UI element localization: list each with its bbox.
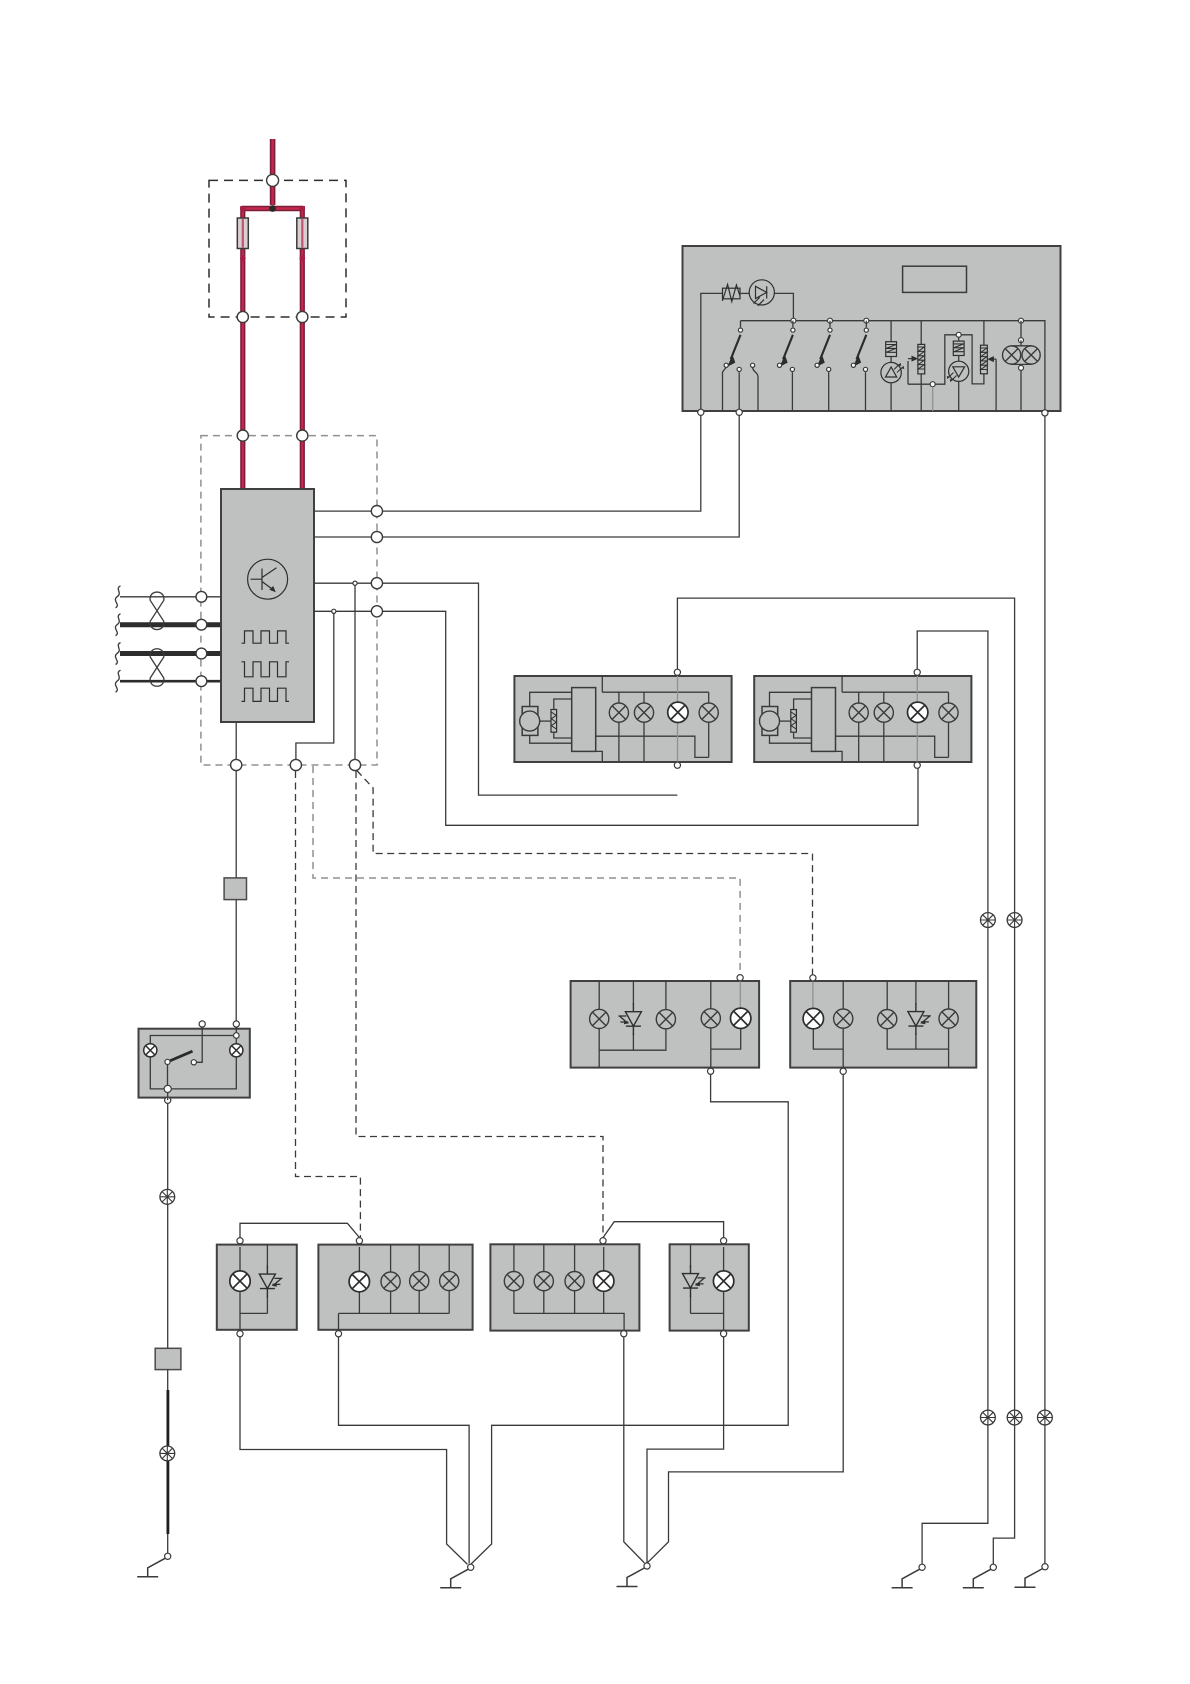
wire: lower ground wire [167, 1370, 169, 1554]
connector: control boundary top right (red in) [297, 430, 308, 441]
wire: LDR to photodiode [740, 292, 749, 294]
right headlamp: series resistor [791, 710, 797, 733]
connector: boundary bottom 3 [349, 759, 360, 770]
right rear: lamp3 riser [886, 981, 888, 1009]
wire: U1 output 2 to connector [314, 536, 377, 538]
break squiggle input 3 [115, 643, 120, 665]
arrow: P2 wiper head [987, 356, 994, 362]
inline connector box on feed [224, 878, 246, 900]
right headlamp low beam lamp (on) [908, 702, 928, 722]
pin: S1 bottom pin 1 [698, 409, 704, 415]
wire: P1 wiper [908, 359, 915, 385]
left headlamp module [514, 676, 731, 762]
switch 1 lever [727, 335, 740, 367]
right rear LED indicator [908, 1003, 931, 1035]
splice on lower ground wire [160, 1446, 175, 1461]
left headlamp: resistor top wire [554, 699, 572, 710]
parking light switch module [139, 1029, 250, 1098]
right rear lamp 4 [939, 1009, 958, 1028]
right rear lamp module [790, 981, 976, 1068]
wire: S1 pin3 long ground rail [1044, 416, 1046, 1564]
connector: output 1 [371, 506, 382, 517]
wire: switch bottom down [167, 1093, 169, 1349]
wire: lamp pair feed [1020, 321, 1022, 341]
switch 1 contact b [737, 367, 741, 371]
M1 white lamp [230, 1271, 250, 1291]
right headlamp: motor mount rect [762, 707, 778, 736]
switch left lamp [144, 1044, 157, 1057]
switch 4 top contact [864, 328, 868, 332]
wire: M3-M4 top link [603, 1222, 724, 1238]
junction on bus at switch 3 [828, 318, 833, 323]
transistor symbol in U1 [248, 559, 288, 599]
panel lamp E2 [1022, 346, 1040, 364]
M2: bottom bus [339, 1291, 450, 1330]
junction above R2 [956, 332, 961, 337]
junction: below fuse F1 [240, 256, 246, 262]
potentiometer P1 [918, 344, 925, 374]
switch: pivot down wire [167, 1065, 169, 1089]
left headlamp: bus feed stub [601, 676, 603, 692]
connector: input 3 [196, 648, 207, 659]
module M1 (position lamp left) [217, 1245, 297, 1330]
wire: fuse F2 feed (red) right branch [300, 206, 305, 489]
twisted pair symbol inputs 1-2 [150, 592, 164, 630]
pin: left rear top [737, 975, 743, 981]
break squiggle input 2 [115, 614, 120, 636]
M1 LED [259, 1266, 282, 1298]
ground G3 [617, 1563, 651, 1587]
M3 lamp 1 [504, 1272, 523, 1291]
splice on right headlamp rail [981, 913, 996, 928]
switch: right lamp wires [168, 1057, 237, 1089]
ground G1 [137, 1553, 171, 1577]
M2: lamp4 riser [448, 1245, 450, 1272]
left headlamp: lamp4 drop [708, 692, 710, 703]
pin: S1 bottom pin 2 [736, 409, 742, 415]
switch 1 contact c [751, 363, 755, 367]
resistor R2 [953, 341, 964, 355]
potentiometer P2 [981, 345, 988, 374]
left headlamp: resistor bottom wire [554, 732, 572, 738]
M2: lamp3 riser [418, 1245, 420, 1272]
right headlamp: lamp1 down wire [858, 722, 860, 762]
switch 2 lever [780, 335, 793, 367]
right rear lamp 2 [834, 1009, 853, 1028]
pin: right rear bottom [840, 1068, 846, 1074]
pin: left headlamp top [674, 669, 680, 675]
switch 1 contact a [724, 363, 728, 367]
fuse box (dashed boundary) [209, 180, 346, 317]
connector: output 3 [371, 578, 382, 589]
right headlamp: bus feed stub [841, 676, 843, 692]
right headlamp: motor M [760, 711, 780, 731]
splice on switch ground wire [160, 1189, 175, 1204]
M3: white lamp feed [603, 1247, 605, 1272]
left rear: bottom bus 2 [711, 1028, 741, 1068]
dashed option wire D4 to module M3 [356, 771, 603, 1237]
indicator LED1 [881, 362, 904, 382]
left rear: feed to white lamp [739, 981, 741, 1009]
ground G5 [963, 1564, 997, 1588]
left headlamp lamp 4 [699, 703, 718, 722]
wire: U1 bottom pin down [235, 722, 237, 878]
right headlamp lamp 1 [849, 703, 868, 722]
M3: bottom bus [514, 1291, 624, 1330]
right headlamp: bottom bus [836, 722, 949, 757]
wire: heavy section of ground wire [166, 1390, 169, 1534]
junction below lamp pair [1019, 365, 1024, 370]
wire: contact 1c down [753, 368, 758, 411]
left rear white lamp (on) [731, 1008, 751, 1028]
wire: M1 top link [240, 1223, 359, 1237]
left headlamp: lamp1 drop [618, 692, 620, 703]
right headlamp: leveling unit rect [812, 688, 836, 752]
control module dashed boundary [201, 436, 377, 765]
break squiggle input 4 [115, 670, 120, 692]
wire: R2 to LED2 [958, 356, 960, 362]
arrow: P1 wiper head [912, 356, 919, 362]
switch: fixed contact [191, 1060, 196, 1065]
right rear: bottom bus 2 [887, 1029, 948, 1068]
left rear: lamp3 riser [710, 981, 712, 1009]
dashed option wire D3 to right rear lamp [357, 771, 813, 975]
wire: P2 wiper [991, 359, 996, 411]
wire: left headlamp top pin to right ground rail [677, 598, 1014, 1564]
right rear: lamp4 riser [948, 981, 950, 1009]
wire: photodiode to switch bus [774, 293, 793, 320]
right headlamp: motor bottom wire [770, 735, 812, 743]
pin: S1 bottom pin 3 (right) [1042, 410, 1048, 416]
wire: switch4 riser [865, 321, 867, 328]
module M4 (position lamp right) [670, 1244, 749, 1330]
wire: contact 2b down [791, 372, 793, 411]
switch 1 top contact [738, 328, 742, 332]
right headlamp: lamp top bus [842, 691, 948, 693]
wire: red bus bar in fuse box [243, 206, 302, 212]
left rear: lamp2 riser [665, 981, 667, 1009]
wire: U1 output 3 (left headlamp feed) [314, 583, 677, 795]
pin: right rear top [810, 975, 816, 981]
ground G4 [892, 1564, 926, 1588]
wire: potentiometer P2 feed [983, 321, 985, 346]
M1: through wire [239, 1247, 241, 1330]
wire: left rear ground run [471, 1074, 789, 1564]
connector: boundary bottom 2 [290, 759, 301, 770]
wire: input 2 (thick) to control module [120, 622, 221, 627]
wire: R2 feed [958, 337, 960, 341]
left headlamp: bottom step outline [596, 751, 603, 762]
pin: M3 top [600, 1238, 606, 1244]
M2 lamp 2 [381, 1272, 400, 1291]
splice lower on rail 1 [981, 1410, 996, 1425]
pin: switch bottom [165, 1097, 171, 1103]
right headlamp: through wire (low beam) [916, 675, 918, 765]
switch 3 contact b [827, 367, 831, 371]
fuse F2 [297, 218, 308, 249]
wire: M4 ground run [647, 1337, 724, 1563]
M2 white lamp [349, 1271, 369, 1291]
M3 lamp 2 [534, 1272, 553, 1291]
pin: M3 bottom [621, 1331, 627, 1337]
M3: lamp2 riser [543, 1244, 545, 1272]
left headlamp: motor top wire [530, 692, 572, 706]
square wave symbol row 1 [242, 631, 290, 643]
dashed option wire D1 to module M2 [296, 771, 361, 1237]
M4 LED [683, 1265, 706, 1297]
right rear lamp 3 [878, 1010, 897, 1029]
connector: input 2 [196, 619, 207, 630]
photodiode sensor B1 [749, 280, 774, 306]
switch right lamp [230, 1044, 243, 1057]
wire: input 4 to control module [120, 680, 221, 683]
square wave symbol row 2 [242, 662, 290, 677]
left rear: lamp1 riser [598, 981, 600, 1009]
wire: input 3 (thick) to control module [120, 651, 221, 656]
connector: input 4 [196, 676, 207, 687]
junction on bus at switch 4 [864, 318, 869, 323]
left headlamp: lamp top bus [602, 691, 708, 693]
right rear: lamp2 riser [842, 981, 844, 1009]
left headlamp: series resistor [551, 710, 557, 733]
display window in S1 [903, 266, 967, 292]
M2: lamp2 riser [390, 1245, 392, 1272]
M3 lamp 3 [565, 1272, 584, 1291]
M4: bus [691, 1244, 724, 1313]
junction: red bar left end [240, 206, 246, 212]
right rear: led riser [915, 981, 917, 1005]
right headlamp: lamp4 drop [948, 692, 950, 703]
wire: contact 1a down [723, 367, 727, 411]
right headlamp: motor top wire [770, 692, 812, 706]
junction on bus at lamp pair [1019, 318, 1024, 323]
pin: switch top 2 [233, 1021, 239, 1027]
left rear lamp 3 [701, 1009, 720, 1028]
wire: switch2 riser [792, 321, 794, 328]
pin: left rear bottom [708, 1068, 714, 1074]
wire: contact 4b down [865, 372, 867, 411]
junction on pin riser [234, 1033, 240, 1039]
junction on wiper bus [930, 382, 935, 387]
right headlamp: resistor top wire [794, 699, 812, 710]
connector: input 1 [196, 591, 207, 602]
light switch module S1 (top right) [683, 246, 1061, 411]
wire: wiper bus tap down [932, 387, 934, 411]
connector: fuse box bottom left [237, 311, 248, 322]
pin: M4 top [721, 1238, 727, 1244]
left headlamp: motor bottom wire [530, 735, 572, 743]
wire: input 1 (thin) to control module [120, 596, 221, 598]
right rear: bottom bus 1 [813, 1029, 843, 1068]
switch 2 top contact [791, 328, 795, 332]
wire: M3 ground run [624, 1337, 645, 1563]
junction on bus at LDR branch [791, 318, 796, 323]
switch 2 contact b [790, 367, 794, 371]
M4 white lamp [713, 1271, 733, 1291]
twisted pair symbol inputs 3-4 [150, 649, 164, 687]
switch 3 contact a [815, 363, 819, 367]
connector: boundary bottom 1 [231, 759, 242, 770]
wire: switch bus in S1 [741, 321, 1045, 411]
right headlamp: lamp1 drop [858, 692, 860, 703]
wire: R1 to LED1 [890, 357, 892, 363]
left headlamp lamp 2 [634, 703, 653, 722]
M1: bus [240, 1245, 267, 1314]
photoresistor R-LDR [722, 285, 740, 302]
M2 lamp 4 [440, 1271, 459, 1290]
wire: resistor R1 branch [890, 321, 892, 342]
switch: pivot contact [165, 1059, 170, 1064]
switch 3 lever [817, 335, 830, 367]
left headlamp: lamp1 down wire [618, 722, 620, 762]
left headlamp: motor mount rect [522, 707, 538, 736]
splice lower on rail 3 [1038, 1410, 1053, 1425]
junction: below fuse F2 [299, 256, 305, 262]
switch: inner top bus [150, 1027, 236, 1044]
wire: M2 ground run [339, 1337, 470, 1564]
right headlamp: resistor bottom wire [794, 732, 812, 738]
wire: S1 pin1 to U1 output1 [383, 415, 701, 511]
splice on left headlamp rail [1007, 913, 1022, 928]
M2 lamp 3 [410, 1271, 429, 1290]
left headlamp: through wire (low beam) [677, 675, 679, 765]
control module U1 (headlight control unit) [221, 489, 314, 722]
switch 4 contact b [863, 367, 867, 371]
resistor R1 [886, 342, 897, 357]
junction in switch module [164, 1085, 171, 1092]
right headlamp: motor-resistor link [780, 720, 791, 722]
wire: right rear ground run [647, 1074, 843, 1563]
switch 4 contact a [851, 363, 855, 367]
left headlamp: motor M [520, 711, 540, 731]
wire: M1 ground run [240, 1337, 468, 1564]
wire: lamp pair bracket [1012, 340, 1032, 411]
connector: output 4 [371, 606, 382, 617]
wire: branch from output 3 node down to boundary [354, 583, 356, 765]
left rear LED indicator [618, 1003, 641, 1035]
M4: through wire [723, 1247, 725, 1330]
junction: red bar right end [299, 206, 305, 212]
left headlamp: lamp2 down wire [643, 722, 645, 762]
pin: M2 bottom [335, 1331, 341, 1337]
left rear lamp module [571, 981, 760, 1068]
wire: potentiometer P1 feed [920, 321, 922, 345]
panel lamp E1 [1003, 346, 1021, 364]
pin: M1 bottom [237, 1331, 243, 1337]
M2: white lamp feed [358, 1247, 360, 1272]
wire: switch3 riser [829, 321, 831, 328]
connector: fuse box bottom right [297, 311, 308, 322]
pin: M1 top [237, 1238, 243, 1244]
switch 4 lever [853, 335, 866, 367]
switch: left lamp wires [150, 1057, 167, 1089]
module M3 (front lamps right) [490, 1244, 639, 1330]
indicator LED2 [947, 361, 969, 382]
switch 3 top contact [828, 328, 832, 332]
ground G6 [1015, 1564, 1049, 1588]
break squiggle input 1 [115, 586, 120, 608]
node on output 3 [353, 581, 357, 585]
left headlamp low beam lamp (on) [668, 702, 688, 722]
wire: U1 output 4 (right headlamp feed) [314, 611, 918, 825]
wire: S1 pin2 to U1 output2 [383, 415, 740, 537]
wire: S1 pin1 riser and LDR feed [701, 293, 723, 411]
pin: switch top 1 [199, 1021, 205, 1027]
pin: right headlamp bottom [914, 762, 920, 768]
right rear white lamp (on) [803, 1008, 823, 1028]
left rear lamp 1 [590, 1009, 609, 1028]
wire: right headlamp top pin to right ground rail [917, 631, 988, 1564]
wire: P1 bottom down [920, 374, 922, 411]
wire: contact 1b down to pin [738, 372, 740, 409]
pin: right headlamp top [914, 669, 920, 675]
switch: contact wire to pin1 [196, 1027, 202, 1062]
right rear: feed to white lamp [812, 981, 814, 1008]
left rear lamp 2 [656, 1010, 675, 1029]
right headlamp: lamp2 drop [883, 692, 885, 703]
connector: output 2 [371, 531, 382, 542]
wire: battery feed (red) from top [270, 139, 276, 205]
right headlamp lamp 4 [939, 703, 958, 722]
right headlamp: bottom step outline [836, 751, 843, 762]
wire: LED2 down [958, 381, 960, 411]
right headlamp lamp 2 [874, 703, 893, 722]
left headlamp: lamp2 drop [643, 692, 645, 703]
square wave symbol row 3 [242, 688, 290, 701]
wire: U1 bottom pin feed down to switch [235, 900, 237, 1021]
node on output 4 [332, 609, 336, 613]
wire: branch from output 4 node down to boundary [296, 611, 334, 765]
wire: bus left end to switch 1 [740, 321, 742, 328]
pin: left headlamp bottom [674, 762, 680, 768]
fuse F1 [237, 218, 248, 249]
module M2 (front lamps left) [318, 1245, 472, 1330]
left headlamp: leveling unit rect [572, 688, 596, 752]
switch: moving lever [168, 1051, 193, 1062]
splice lower on rail 2 [1007, 1410, 1022, 1425]
switch 2 contact a [777, 363, 781, 367]
junction top of lamp pair [1019, 338, 1024, 343]
pin: M2 top [356, 1238, 362, 1244]
ground G2 [440, 1564, 474, 1588]
connector: fuse box top [267, 174, 279, 186]
dashed gray wire D2 to left rear lamp [313, 766, 740, 974]
left headlamp: motor-resistor link [540, 720, 551, 722]
left rear: led riser [632, 981, 634, 1005]
left headlamp lamp 1 [609, 703, 628, 722]
M3: lamp3 riser [574, 1244, 576, 1272]
left rear: bottom bus 1 [599, 1029, 666, 1068]
left headlamp: bottom bus [596, 722, 709, 757]
right headlamp module [754, 676, 971, 762]
wire: contact 3b down [828, 372, 830, 411]
right headlamp: lamp2 down wire [883, 722, 885, 762]
wire: fuse F1 feed (red) left branch [240, 206, 245, 489]
M3: lamp1 riser [513, 1244, 515, 1272]
wire: U1 output 1 to connector [314, 510, 377, 512]
wire: LED1 down [890, 383, 892, 411]
wire: wiper bus between P1 and R2 [908, 335, 984, 384]
M3 white lamp [594, 1271, 614, 1291]
inline fuse box lower left [155, 1348, 181, 1369]
junction: red bus node [269, 205, 276, 212]
connector: control boundary top left (red in) [237, 430, 248, 441]
pin: M4 bottom [721, 1331, 727, 1337]
